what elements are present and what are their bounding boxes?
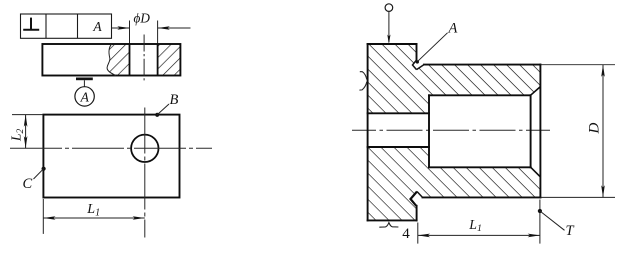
svg-text:A: A xyxy=(448,21,458,37)
svg-text:A: A xyxy=(92,19,102,34)
svg-text:L1: L1 xyxy=(468,217,482,234)
svg-text:B: B xyxy=(170,92,179,108)
svg-text:D: D xyxy=(587,123,603,135)
svg-text:ϕD: ϕD xyxy=(134,10,151,25)
svg-text:T: T xyxy=(566,223,575,239)
svg-text:A: A xyxy=(80,89,90,104)
svg-text:L1: L1 xyxy=(86,202,100,218)
svg-text:C: C xyxy=(23,176,33,192)
svg-text:4: 4 xyxy=(402,226,410,242)
svg-text:L2: L2 xyxy=(9,128,27,142)
